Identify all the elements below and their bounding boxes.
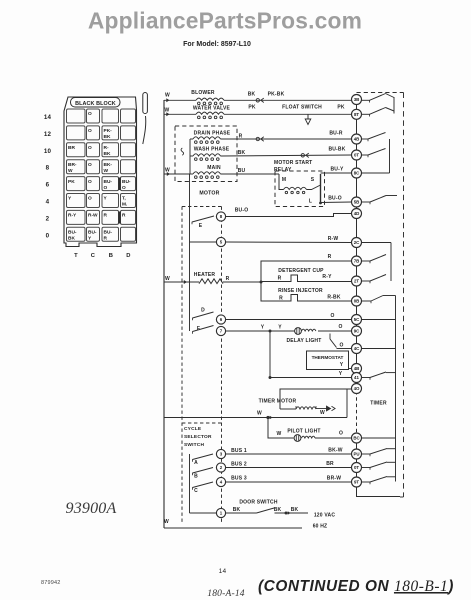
terminal T10 [67,143,86,157]
wire motor feed [164,173,190,175]
svg-text:O: O [88,162,92,168]
svg-text:W: W [320,410,325,416]
svg-text:FLOAT SWITCH: FLOAT SWITCH [282,105,322,111]
timer terminal BC [352,433,362,443]
svg-text:WASH PHASE: WASH PHASE [194,147,230,153]
svg-text:O: O [88,196,92,202]
svg-text:W: W [277,431,282,437]
connector tab [143,93,148,114]
terminal D4 [121,194,136,208]
wire pilot light to timer BC O [315,437,352,439]
svg-text:DOOR SWITCH: DOOR SWITCH [239,500,277,506]
switch C [192,487,194,490]
cam switch 3B [362,99,370,101]
svg-text:R-Y: R-Y [322,274,332,280]
svg-text:41: 41 [354,375,359,380]
svg-text:W: W [164,519,169,525]
terminal C8 [87,160,100,174]
svg-text:BU-: BU- [122,179,131,185]
terminal T12 (empty) [67,126,86,140]
svg-text:D: D [201,308,205,314]
wire 2C to common [362,242,391,244]
cam switch 4B drain [362,138,368,140]
svg-text:0T: 0T [354,465,359,470]
svg-text:6: 6 [46,182,50,189]
cam switch 0B [362,300,371,302]
terminal B14 (empty) [102,109,119,123]
motor start relay dashed box [275,171,325,207]
timer terminal 5C [352,315,362,325]
motor protector [181,148,184,155]
svg-text:B: B [109,253,113,259]
svg-text:For Model: 8597-L10: For Model: 8597-L10 [183,41,251,48]
timer terminal 9T [352,477,362,487]
svg-text:5B: 5B [354,200,360,205]
svg-text:BK: BK [291,507,299,513]
motor dashed box [175,126,237,182]
junction R [260,281,263,284]
cam switch 5B [362,201,370,203]
svg-text:Y: Y [261,325,265,331]
svg-text:PK-BK: PK-BK [268,92,285,98]
svg-text:B: B [194,474,198,480]
svg-text:BK: BK [68,236,75,242]
timer terminal 41 [352,373,362,383]
timer terminal column [356,95,358,391]
cam switch 2T [362,280,370,282]
terminal C6 [87,177,100,191]
terminal B2 [102,210,119,224]
svg-text:HEATER: HEATER [194,272,216,278]
wire heater feed [164,281,199,283]
svg-text:O: O [88,179,92,185]
timer cam common 4 [395,296,397,482]
timer motor arrow [316,408,328,410]
svg-text:W: W [165,108,170,114]
timer terminal 2T [352,276,362,286]
switch D [192,318,194,321]
wire timer motor right side [346,389,348,409]
svg-text:F: F [197,326,200,332]
svg-text:7B: 7B [354,259,360,264]
node 7 [216,326,225,335]
junction pilot feed [266,416,269,419]
svg-text:TIMER MOTOR: TIMER MOTOR [259,399,297,405]
svg-text:R-W: R-W [88,213,98,219]
svg-text:W: W [104,168,109,174]
terminal B0 [102,227,119,241]
switch B [192,473,194,476]
wire pilot light feed [268,418,294,439]
svg-text:W: W [165,93,170,99]
svg-text:(CONTINUED ON 180-B-1): (CONTINUED ON 180-B-1) [258,578,454,595]
switch E [191,222,193,225]
svg-text:180-A-14: 180-A-14 [207,589,245,599]
svg-text:D: D [126,253,130,259]
terminal B6 [102,177,119,191]
svg-text:BK-W: BK-W [328,448,342,454]
svg-text:BLOWER: BLOWER [191,90,215,96]
svg-text:0: 0 [46,232,50,239]
terminal block thick divider row 6 [118,178,121,191]
wire 4C to common [362,348,396,350]
svg-text:PK: PK [248,105,256,111]
svg-text:AppliancePartsPros.com: AppliancePartsPros.com [88,8,362,34]
junction delay [269,330,272,333]
svg-text:BR: BR [326,461,334,467]
svg-text:O: O [339,431,343,437]
node 4 [216,477,225,486]
terminal D0 (empty) [121,227,136,241]
svg-text:10: 10 [44,148,52,155]
timer terminal 4C [352,344,362,354]
terminal D14 (empty) [121,109,136,123]
timer terminal 2C [352,238,362,248]
svg-text:O: O [88,145,92,151]
svg-text:BU-O: BU-O [235,208,249,214]
svg-text:R-BK: R-BK [327,295,340,301]
wire main BU to relay [221,173,280,175]
relay coil [279,174,284,190]
terminal block thick divider row 2 [118,212,121,224]
wire door switch to line [275,512,309,514]
svg-text:8T: 8T [354,112,359,117]
svg-text:THERMOSTAT: THERMOSTAT [312,355,344,360]
timer terminal 8C [352,168,362,178]
terminal C10 [87,143,100,157]
svg-text:8C: 8C [354,171,360,176]
svg-text:BK: BK [104,151,111,157]
wire selector feed [189,174,191,331]
svg-text:R: R [239,134,243,140]
svg-text:4D: 4D [354,211,360,216]
cycle selector dashed box [181,207,183,524]
node 1 [216,508,225,517]
wire neutral bottom [164,527,302,529]
timer terminal 8T [352,109,362,119]
svg-text:120 VAC: 120 VAC [314,513,336,519]
svg-text:2C: 2C [354,240,360,245]
svg-text:14: 14 [44,114,52,121]
terminal D12 (empty) [121,126,136,140]
terminal C0 [87,227,100,241]
wire blower feed [164,99,196,101]
relay contact [320,174,322,203]
svg-text:BK-: BK- [104,162,113,168]
svg-text:O: O [339,343,343,349]
svg-text:E: E [199,223,203,229]
svg-text:O: O [338,324,342,330]
svg-text:4: 4 [46,199,50,206]
node 2 [216,463,225,472]
terminal D2 [121,210,136,224]
svg-text:60 HZ: 60 HZ [313,524,328,530]
connector in drain wire [256,137,259,140]
svg-text:W: W [257,411,262,417]
svg-text:Y: Y [278,325,282,331]
cam switch 7B [362,260,370,262]
wire relay L to timer 5B BU-O [321,201,352,204]
svg-text:0B: 0B [354,299,360,304]
svg-text:SWITCH: SWITCH [184,442,204,448]
terminal T8 [67,160,86,174]
wire contact 5 to timer 2C R-W [190,241,217,243]
svg-text:2: 2 [46,215,50,222]
wire thermostat to timer 4C [337,348,352,350]
wire blower to timer 3B [224,99,352,101]
wire delay light to timer 9C O [318,330,352,332]
thermostat switch [329,334,331,340]
terminal B4 [102,194,119,208]
svg-text:BR-W: BR-W [327,476,341,482]
svg-text:BC: BC [353,436,360,441]
node 6 [216,315,225,324]
terminal B8 [102,160,119,174]
timer terminal 7B [352,256,362,266]
svg-text:R-Y: R-Y [68,213,77,219]
timer terminal 4B lower [352,364,362,374]
terminal C2 [87,210,100,224]
wire 8C to common [362,172,390,174]
svg-text:DRAIN PHASE: DRAIN PHASE [194,131,231,137]
timer terminal PU [352,449,362,459]
svg-text:Y: Y [340,362,344,368]
svg-text:M: M [282,177,286,183]
svg-text:2T: 2T [354,279,359,284]
terminal T14 (empty) [67,109,86,123]
svg-text:PK: PK [68,179,75,185]
svg-text:9T: 9T [354,480,359,485]
timer terminal 0T lower [352,463,362,473]
svg-text:MOTOR: MOTOR [199,191,219,197]
svg-text:879942: 879942 [41,580,61,586]
svg-text:DETERGENT CUP: DETERGENT CUP [278,268,324,274]
cam switch 9T [362,481,370,483]
svg-text:4O: 4O [354,386,360,391]
node W power bus [163,100,165,528]
svg-text:S: S [311,177,315,183]
svg-text:WATER VALVE: WATER VALVE [193,105,231,111]
wire BC to common [362,437,396,439]
svg-text:BU-Y: BU-Y [330,167,343,173]
svg-text:RINSE INJECTOR: RINSE INJECTOR [278,288,323,294]
wire thermostat box to timer 4B Y [349,368,353,370]
terminal D6 [121,177,136,191]
svg-text:R: R [104,213,108,219]
wire selector bus common [189,454,191,513]
cam switch 0T bus2 [362,467,370,469]
svg-text:BU: BU [238,168,246,174]
terminal T4 [67,194,86,208]
timer cam common 3 [390,243,392,282]
terminal D10 (empty) [121,143,136,157]
wire W run to timer motor [164,417,347,419]
timer terminal 4B [352,134,362,144]
cam switch 8T [362,113,370,115]
wire 5C to common [362,319,396,321]
svg-text:W: W [165,276,170,282]
timer terminal 9C [352,326,362,336]
svg-text:9C: 9C [354,329,360,334]
svg-text:BR-: BR- [68,162,77,168]
svg-text:BU-: BU- [104,230,113,236]
svg-text:BK: BK [248,92,256,98]
terminal T0 [67,227,86,241]
svg-text:MOTOR START: MOTOR START [274,160,312,166]
svg-text:5C: 5C [354,317,360,322]
wire drain phase R [221,138,352,140]
wire contact 6 to timer 5C O [226,319,352,321]
wire junction to timer 7B R [261,261,352,282]
terminal C12 [87,126,100,140]
wire water valve to timer 8T [224,113,352,115]
terminal T2 [67,210,86,224]
svg-text:SELECTOR: SELECTOR [184,434,212,440]
svg-text:T: T [74,253,78,259]
connector in wash wire [301,154,304,157]
svg-text:14: 14 [219,568,227,575]
node 8 [216,212,225,221]
svg-text:R: R [278,276,282,282]
terminal block label BLACK BLOCK [71,98,121,108]
wire water valve feed [164,113,196,115]
switch F [192,331,194,334]
timer cam common 1 [393,97,395,114]
svg-text:BUS 1: BUS 1 [231,448,247,454]
svg-text:PK-: PK- [104,128,113,134]
wire contact 7 to delay light [226,330,295,332]
svg-text:PILOT LIGHT: PILOT LIGHT [287,429,320,435]
svg-text:TIMER: TIMER [370,401,387,407]
terminal B10 [102,143,119,157]
svg-text:BLACK BLOCK: BLACK BLOCK [75,101,116,107]
svg-text:L: L [309,199,312,205]
svg-text:4B: 4B [354,366,360,371]
terminal C14 [87,109,100,123]
svg-text:DELAY LIGHT: DELAY LIGHT [287,338,322,344]
thermostat box [307,351,349,370]
svg-text:O: O [88,128,92,134]
svg-text:R: R [328,254,332,260]
svg-text:8: 8 [46,165,50,172]
svg-text:MAIN: MAIN [207,165,221,171]
node 3 [216,449,225,458]
svg-text:R: R [122,213,126,219]
svg-text:BUS 3: BUS 3 [231,476,247,482]
svg-text:BU-: BU- [68,230,77,236]
svg-text:R-: R- [104,145,109,151]
svg-text:4C: 4C [354,346,360,351]
switch A [192,459,194,462]
node 5 [216,237,225,246]
svg-text:R-W: R-W [328,236,339,242]
terminal D8 (empty) [121,160,136,174]
svg-text:BU-: BU- [104,179,113,185]
svg-text:O: O [122,185,126,191]
timer cam common 2 [389,139,391,173]
motor winding common [189,139,191,174]
svg-text:BU-: BU- [88,230,97,236]
svg-text:CYCLE: CYCLE [184,426,202,432]
svg-text:C: C [91,253,96,259]
terminal C4 [87,194,100,208]
svg-text:W: W [68,168,73,174]
svg-text:12: 12 [44,131,52,138]
svg-text:BK: BK [238,150,246,156]
svg-text:3B: 3B [354,97,360,102]
timer terminal 0T [352,150,362,160]
svg-text:RELAY: RELAY [274,167,292,173]
svg-text:0T: 0T [354,153,359,158]
svg-text:BK: BK [233,507,241,513]
svg-text:PK: PK [337,105,345,111]
svg-text:BK: BK [104,134,111,140]
svg-text:Y: Y [339,371,343,377]
wire heater to junction [223,281,261,283]
wire BUS 1 to timer PU BK-W [226,453,352,455]
timer dashed box [357,92,404,94]
svg-text:BK: BK [274,507,282,513]
wire BUS 3 to timer 9T BR-W [226,481,352,483]
wire delay junction down to 41 Y [269,331,271,378]
svg-text:C: C [194,488,198,494]
svg-text:BUS 2: BUS 2 [231,462,247,468]
wire wash phase BK [221,155,352,156]
cam switch 0T wash [362,154,368,156]
svg-text:BU-O: BU-O [328,196,342,202]
svg-text:BR: BR [68,145,75,151]
timer terminal 3B [352,95,362,105]
svg-text:4B: 4B [354,137,360,142]
lead wire from connector tab [143,116,146,144]
cam switch PU [362,453,370,455]
svg-text:A: A [194,460,198,466]
svg-text:BU-R: BU-R [329,131,342,137]
timer terminal 4D [352,209,362,219]
svg-text:O: O [330,313,334,319]
terminal T6 [67,177,86,191]
svg-text:R: R [104,236,108,242]
wire relay S to timer 8C BU-Y [321,172,352,174]
terminal B12 [102,126,119,140]
svg-text:O: O [88,111,92,117]
timer terminal 0B [352,296,362,306]
timer terminal 5B [352,197,362,207]
svg-text:R: R [226,276,230,282]
svg-text:93900A: 93900A [66,500,117,517]
svg-text:O: O [104,185,108,191]
svg-text:BU-BK: BU-BK [328,147,345,153]
terminal block outline [64,97,137,247]
svg-text:PU: PU [353,452,359,457]
svg-text:M.: M. [122,202,127,208]
connector in blower wire [256,99,259,102]
wire BUS 2 to timer 0T BR [226,467,352,469]
timer terminal 4O [352,384,362,394]
wire contact 8 to timer 4D BU-O [226,214,352,217]
cam switch 41 [362,377,370,379]
